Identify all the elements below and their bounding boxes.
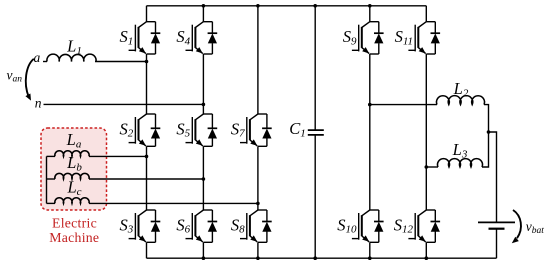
junction bottom rail / leg C: [256, 256, 260, 260]
wire n to leg B: [44, 103, 204, 105]
node a / leg A junction: [145, 60, 149, 64]
junction top rail / leg D: [368, 4, 372, 8]
transistor S7: [240, 114, 272, 146]
junction bottom rail / leg B: [202, 256, 206, 260]
transistor S10: [352, 210, 384, 242]
transistor S3: [129, 210, 161, 242]
transistor S9: [352, 22, 384, 54]
wire leg A (S1-S2-S3 column): [146, 6, 148, 258]
junction bottom rail / C1: [313, 256, 317, 260]
electric machine box: [41, 128, 107, 210]
junction bottom rail / leg E: [425, 256, 429, 260]
v_an arrow: [26, 59, 34, 97]
junction top rail / leg B: [202, 4, 206, 8]
junction top rail / leg C: [256, 4, 260, 8]
wire L2 down to join: [484, 105, 489, 132]
inductor L1: [43, 61, 47, 63]
wire leg E (S11-S12 column): [425, 6, 427, 258]
battery vbat: [478, 221, 515, 223]
wire a to leg A: [95, 61, 147, 63]
node L2-L3-battery: [487, 130, 491, 134]
transistor S11: [408, 22, 440, 54]
wire leg D (S9-S10 column): [369, 6, 371, 258]
transistor S8: [240, 210, 272, 242]
transistor S2: [129, 114, 161, 146]
capacitor C1: [314, 6, 316, 258]
wire leg C (S7-S8 column): [257, 6, 259, 258]
transistor S1: [129, 22, 161, 54]
wire L3 up to join: [482, 132, 489, 167]
svg-text:Machine: Machine: [49, 230, 99, 245]
transistor S5: [186, 114, 218, 146]
transistor S6: [186, 210, 218, 242]
wire leg B (S4-S5-S6 column): [202, 6, 204, 258]
top DC rail: [147, 5, 427, 7]
svg-text:Electric: Electric: [52, 215, 97, 230]
inductor Lb: [47, 178, 56, 180]
inductor Lc: [47, 202, 56, 204]
svg-text:a: a: [34, 50, 41, 65]
machine common vertical wire: [46, 156, 48, 203]
junction top rail / C1: [313, 4, 317, 8]
transistor S4: [186, 22, 218, 54]
junction bottom rail / leg D: [368, 256, 372, 260]
wire Lb to leg B: [89, 178, 203, 180]
bottom DC rail: [147, 257, 497, 259]
wire join to battery: [489, 132, 497, 222]
wire La to leg A: [89, 155, 147, 157]
svg-text:n: n: [35, 95, 42, 110]
inductor La: [47, 155, 56, 157]
v_bat arrow: [513, 210, 521, 238]
inductor L3: [426, 166, 438, 168]
wire Lc to leg C: [89, 202, 258, 204]
node n / leg B junction: [202, 103, 206, 107]
inductor L2: [370, 104, 437, 106]
transistor S12: [408, 210, 440, 242]
